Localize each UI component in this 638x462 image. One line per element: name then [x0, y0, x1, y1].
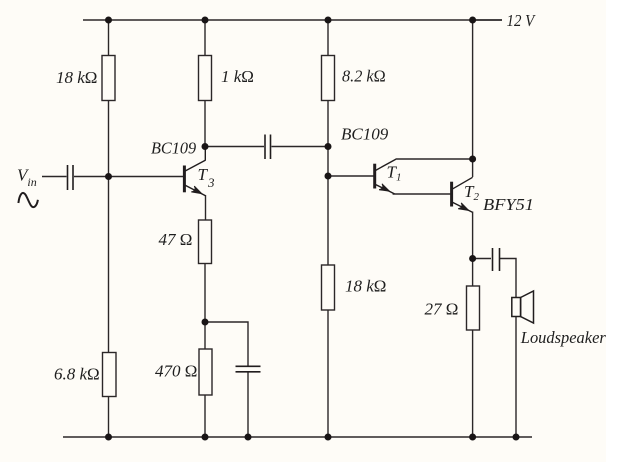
wire R3 to node C and node E — [327, 100, 329, 176]
wire node D to C3 branch — [205, 322, 248, 366]
node ground rail / loudspeaker — [513, 434, 520, 441]
wire T1 collector run to node F — [396, 158, 473, 160]
wire node A to T3 base — [109, 176, 184, 178]
svg-text:Loudspeaker: Loudspeaker — [520, 328, 606, 347]
0V bottom ground rail wire — [63, 436, 532, 438]
capacitor C3 emitter bypass — [236, 366, 261, 372]
node ground rail / column B — [202, 434, 209, 441]
wire C2 to node C — [272, 146, 329, 148]
wire C1 to node A — [74, 176, 109, 178]
wire loudspeaker to ground rail — [515, 317, 517, 438]
node top rail / column D — [469, 17, 476, 24]
wire node E to R6 — [327, 176, 329, 266]
resistor R4 47 Ohm — [199, 220, 212, 264]
capacitor C1 input coupling — [68, 165, 74, 190]
svg-text:Vin: Vin — [17, 166, 37, 190]
svg-text:T2: T2 — [464, 182, 479, 203]
resistor R1 18 kOhm — [102, 56, 115, 101]
node B T3 collector — [202, 143, 209, 150]
transistor T1 BC109 — [375, 159, 396, 194]
svg-text:BC109: BC109 — [341, 125, 389, 144]
svg-text:T3: T3 — [198, 165, 215, 190]
svg-text:BFY51: BFY51 — [483, 195, 534, 214]
node G output junction — [469, 255, 476, 262]
svg-text:6.8 kΩ: 6.8 kΩ — [54, 365, 100, 384]
wire column A lower (R7 to rail) — [108, 396, 110, 437]
wire column C upper (rail to R3) — [327, 20, 329, 56]
node ground rail / column C — [325, 434, 332, 441]
node A input junction — [105, 173, 112, 180]
wire node B to C2 — [205, 146, 264, 148]
wire R8 to ground rail — [472, 330, 474, 438]
svg-text:18 kΩ: 18 kΩ — [56, 68, 97, 87]
wire Vin to C1 — [42, 176, 67, 178]
svg-text:27 Ω: 27 Ω — [425, 300, 459, 319]
svg-text:18 kΩ: 18 kΩ — [345, 277, 386, 296]
node D emitter junction — [202, 319, 209, 326]
wire node G to R8 — [472, 259, 474, 287]
resistor R6 18 kOhm — [322, 265, 335, 310]
node ground rail / C3 branch — [245, 434, 252, 441]
wire T3 emitter to R4 — [205, 195, 207, 221]
wire R2 to node B (T3 collector node) — [204, 100, 206, 147]
wire C3 to ground rail — [247, 372, 249, 437]
ac source sine symbol — [18, 193, 38, 207]
node ground rail / column D — [469, 434, 476, 441]
+12V top supply rail wire — [83, 19, 502, 21]
node C2 to column C — [325, 143, 332, 150]
wire column A upper (rail to R1) — [108, 20, 110, 56]
node top rail / column C — [325, 17, 332, 24]
svg-text:8.2 kΩ: 8.2 kΩ — [342, 67, 386, 86]
resistor R7 6.8 kOhm — [103, 353, 117, 397]
wire 12V stub — [473, 19, 502, 21]
wire column D upper (rail to node F) — [472, 20, 474, 159]
wire node E to T1 base — [328, 175, 374, 177]
wire R5 to ground rail — [204, 395, 206, 438]
svg-text:470 Ω: 470 Ω — [155, 362, 197, 381]
wire column B upper (rail to R2) — [204, 20, 206, 56]
resistor R8 27 Ohm — [467, 286, 480, 330]
wire column A middle (R1 to R7) — [108, 100, 110, 353]
resistor R2 1 kOhm — [199, 56, 212, 101]
node E T1 base junction — [325, 173, 332, 180]
wire R6 to ground rail — [327, 310, 329, 438]
node top rail / column A — [105, 17, 112, 24]
wire R4 to node D — [204, 263, 206, 350]
node ground rail / column A — [105, 434, 112, 441]
wire T2 emitter to node G — [472, 212, 474, 259]
svg-text:47 Ω: 47 Ω — [159, 230, 193, 249]
wire T1 emitter run to T2 base — [393, 193, 451, 195]
transistor T3 BC109 — [184, 147, 205, 196]
node F collector junction — [469, 156, 476, 163]
loudspeaker LS1 — [512, 291, 534, 323]
resistor R5 470 Ohm — [199, 349, 212, 395]
resistor R3 8.2 kOhm — [322, 56, 335, 101]
transistor T2 BFY51 — [452, 177, 473, 212]
svg-text:T1: T1 — [387, 163, 402, 184]
svg-text:12 V: 12 V — [507, 11, 537, 30]
capacitor C2 interstage coupling — [265, 135, 271, 160]
node junction dots — [105, 17, 520, 441]
node top rail / column B — [202, 17, 209, 24]
wire C4 to loudspeaker branch — [500, 259, 516, 298]
capacitor C4 output coupling — [493, 248, 500, 271]
wire node G to C4 — [473, 258, 491, 260]
wire node F to T2 collector — [472, 159, 474, 177]
svg-text:BC109: BC109 — [151, 139, 197, 158]
svg-text:1 kΩ: 1 kΩ — [221, 67, 254, 86]
